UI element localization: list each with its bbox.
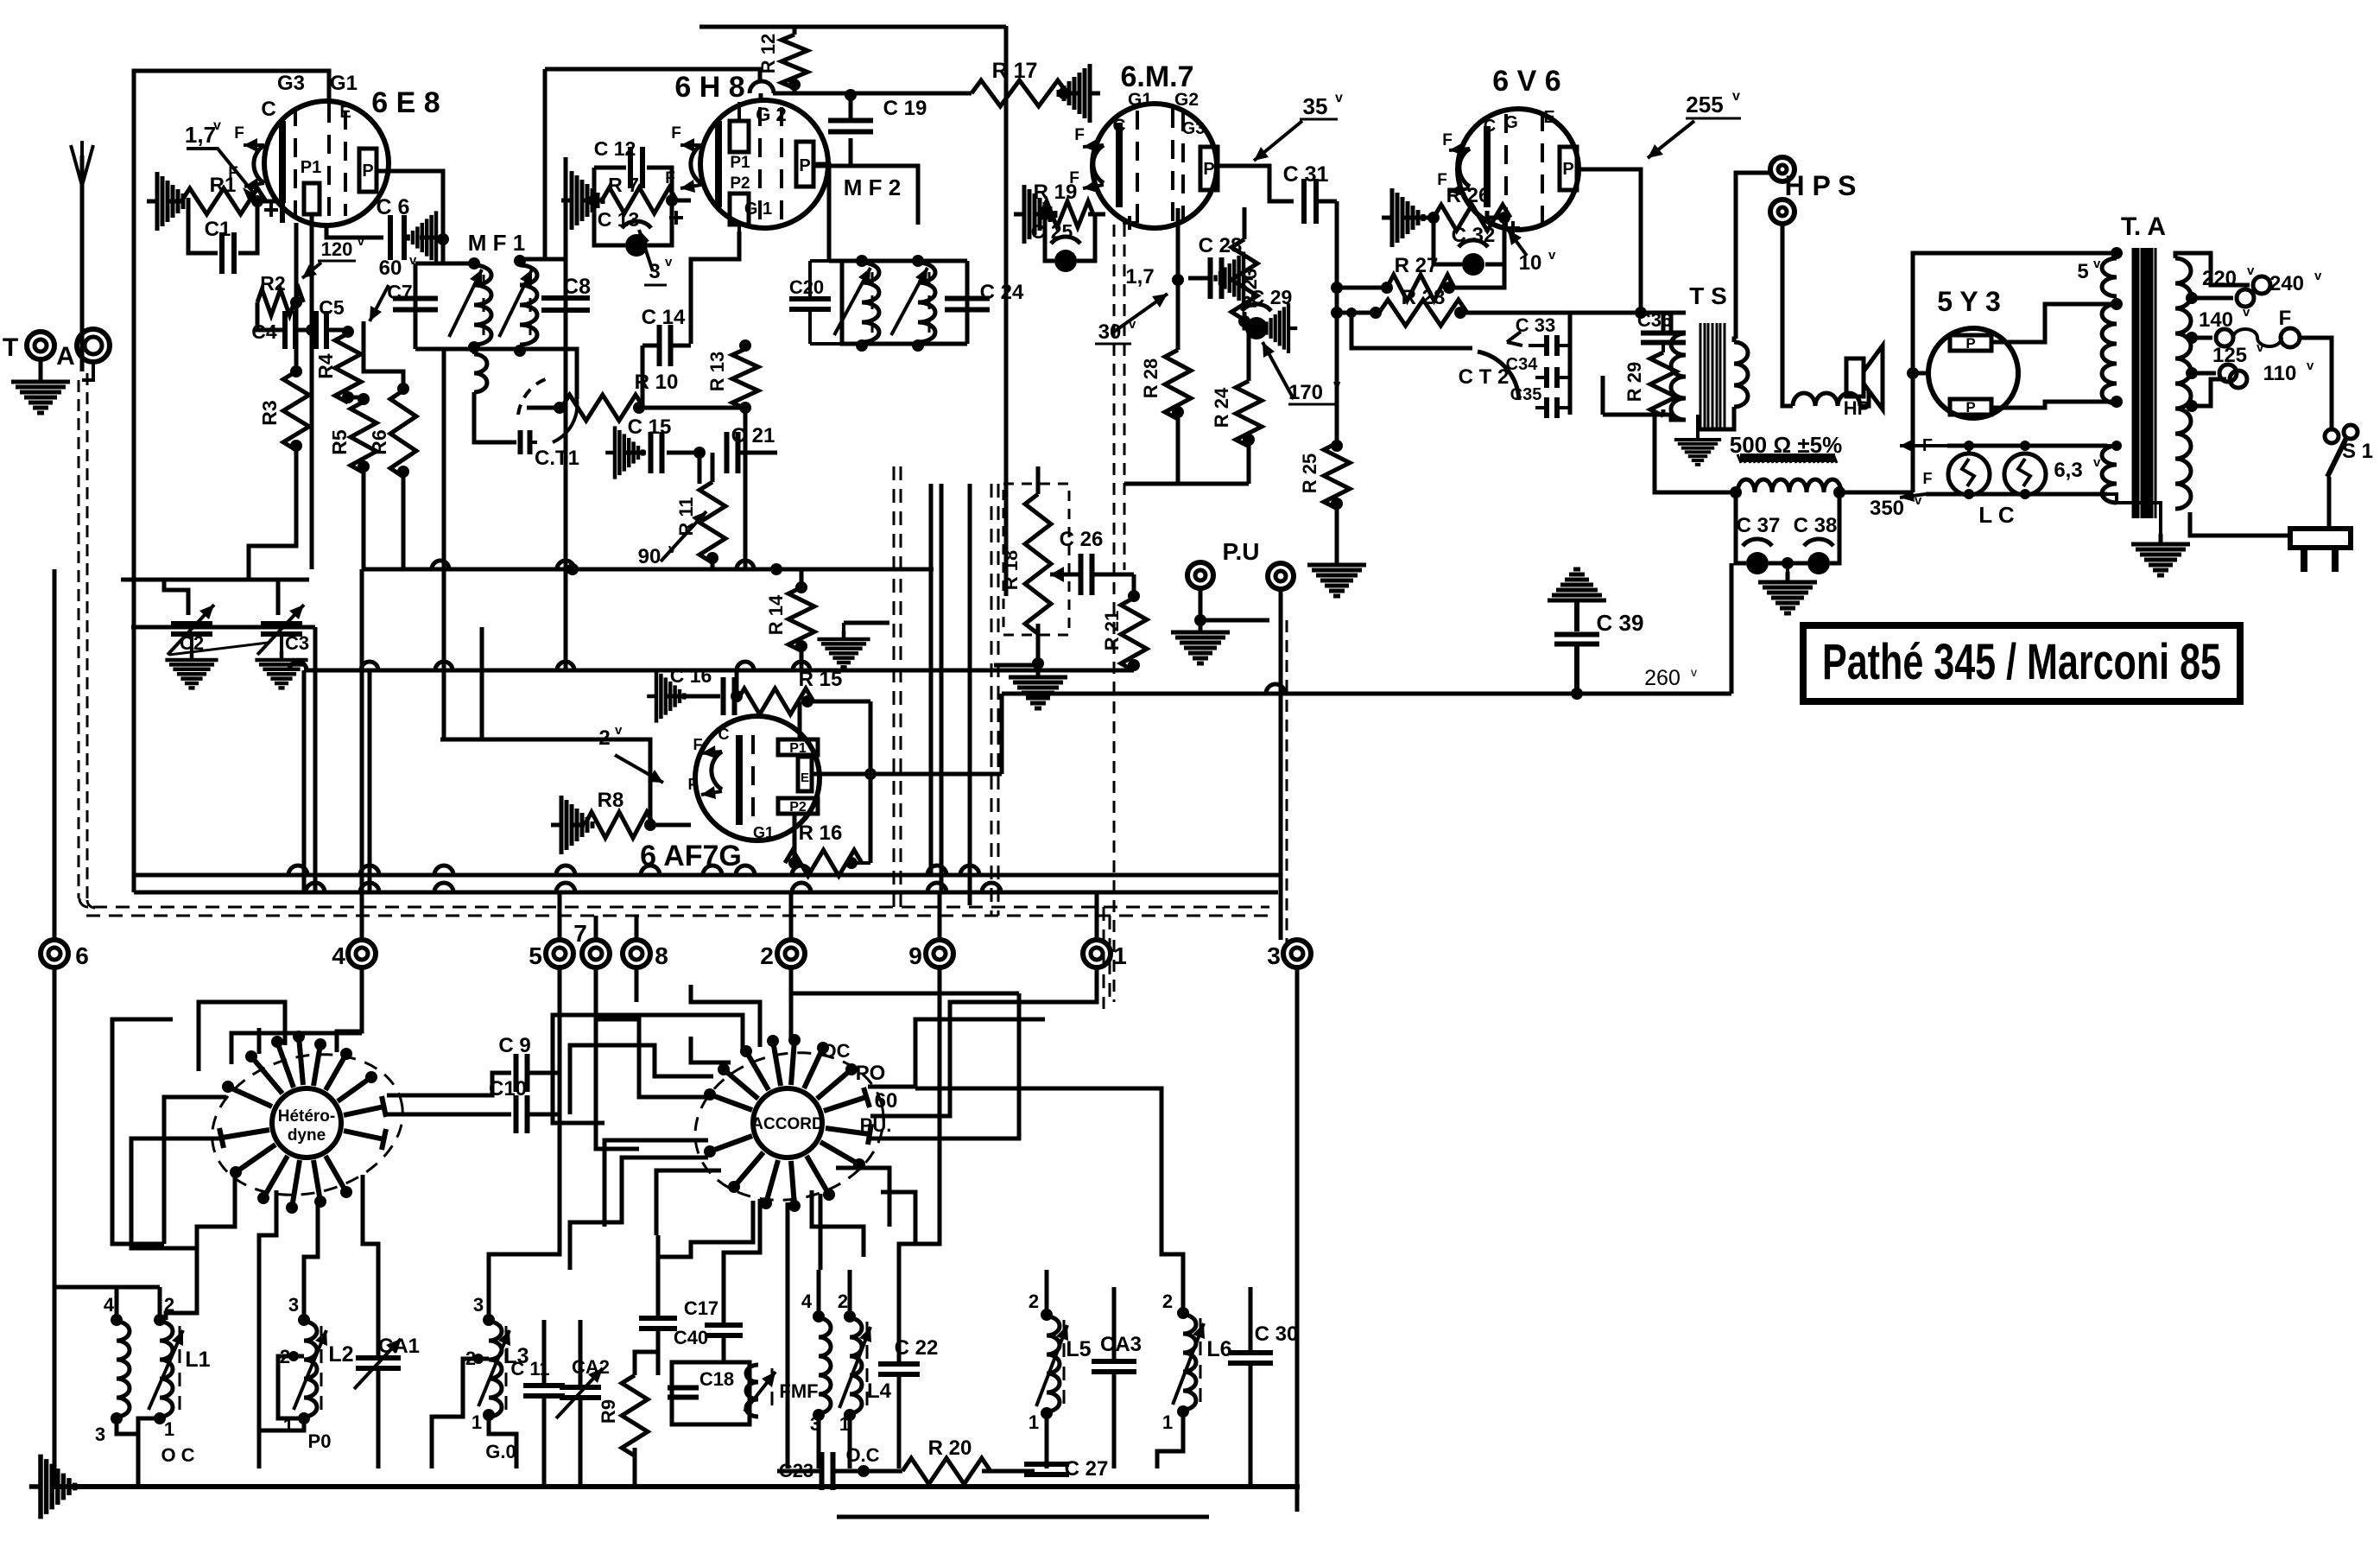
terminal 5 (546, 940, 573, 967)
L1 wires (117, 1417, 160, 1434)
coil L5 (1047, 1316, 1060, 1411)
junction (1331, 307, 1343, 319)
capacitor C25 electrolytic (1054, 250, 1077, 272)
wire 255V node (1570, 311, 1686, 315)
junction (251, 195, 263, 207)
rotary switch Heterodyne (272, 1088, 341, 1158)
wire plug left (2198, 534, 2290, 538)
HPS wires (1736, 173, 1770, 339)
svg-text:5: 5 (529, 942, 542, 969)
capacitor C19 (849, 93, 853, 119)
svg-text:R 19: R 19 (1034, 181, 1078, 204)
capacitor C36 (1641, 333, 1686, 343)
title box Pathe 345 / Marconi 85 (1803, 625, 2240, 701)
TA 5V winding (2102, 258, 2117, 296)
wire (1249, 1287, 1253, 1351)
junction (358, 460, 370, 473)
wire 6H8 box top (545, 69, 760, 82)
svg-text:255: 255 (1686, 92, 1723, 117)
wire (1243, 207, 1247, 239)
svg-text:C 24: C 24 (980, 281, 1024, 304)
wire (777, 1469, 822, 1474)
svg-text:CA1: CA1 (378, 1335, 420, 1358)
wire (326, 330, 348, 333)
wire y856 link (480, 627, 484, 739)
svg-text:C: C (718, 726, 730, 743)
wire (639, 406, 745, 410)
wire (813, 138, 851, 166)
svg-text:R4: R4 (314, 353, 337, 379)
svg-text:2: 2 (838, 1291, 848, 1312)
svg-text:R9: R9 (598, 1399, 619, 1424)
wire (489, 1114, 560, 1270)
variable capacitor CA3 (1092, 1361, 1136, 1372)
wire het right to C9 C10 (387, 1073, 511, 1095)
capacitor C31 (1304, 179, 1316, 224)
svg-text:G2: G2 (1174, 90, 1199, 110)
svg-text:C40: C40 (674, 1327, 708, 1348)
svg-text:v: v (2314, 269, 2322, 283)
svg-text:v: v (615, 723, 623, 738)
svg-text:35: 35 (1303, 93, 1328, 119)
260V feed line (1002, 692, 1731, 696)
svg-text:125: 125 (2212, 344, 2247, 367)
svg-text:C 6: C 6 (377, 195, 410, 219)
wire (376, 371, 403, 389)
wire x428 drop (368, 670, 372, 892)
wire 6V6 plate (1577, 169, 1641, 313)
svg-text:R 13: R 13 (706, 352, 728, 391)
svg-text:P: P (1965, 399, 1975, 415)
resistor R11 (699, 482, 725, 562)
svg-text:FMF: FMF (779, 1380, 818, 1402)
wire (302, 1287, 307, 1320)
vertical dashed pair (893, 466, 896, 907)
resistor R3 (283, 371, 309, 450)
svg-text:C35: C35 (1510, 385, 1542, 404)
antenna terminal T (27, 332, 54, 359)
tap circles (2237, 289, 2254, 307)
svg-text:120: 120 (321, 238, 353, 260)
wire (800, 569, 804, 587)
svg-text:350: 350 (1870, 497, 1904, 520)
shield ground (844, 621, 889, 625)
wire rail (699, 25, 1006, 29)
svg-text:T S: T S (1689, 282, 1727, 309)
5Y3 plate 2 (1950, 399, 1991, 415)
wire (1058, 92, 1081, 96)
filament arrow (1083, 145, 1104, 147)
wire (1913, 371, 1928, 376)
wire (1926, 492, 2107, 497)
svg-text:C 37: C 37 (1737, 514, 1781, 537)
C18 box (672, 1362, 750, 1424)
wire (1249, 1365, 1253, 1487)
pointer (639, 230, 653, 271)
wire (39, 359, 43, 380)
ground (561, 171, 603, 230)
capacitor C8 (564, 157, 568, 670)
dashed corner to accord (1109, 916, 1111, 1002)
svg-text:C 16: C 16 (670, 664, 712, 687)
wire (1176, 278, 1181, 350)
svg-text:P1: P1 (730, 154, 750, 172)
wire (1092, 573, 1134, 577)
wire 6H8 plate right (851, 166, 918, 225)
HP voice coil (1793, 393, 1860, 406)
wire to R27 bus (1337, 286, 1390, 290)
svg-text:60: 60 (875, 1089, 898, 1113)
plate P 6E8 (359, 149, 377, 192)
capacitor C1 (222, 232, 234, 274)
svg-text:C 25: C 25 (1031, 220, 1073, 243)
svg-text:v: v (1335, 91, 1343, 105)
svg-text:O C: O C (161, 1444, 194, 1466)
wire terminal8 drop (635, 967, 639, 1002)
wire (1244, 312, 1245, 328)
svg-text:R8: R8 (598, 789, 624, 812)
plate P1 6E8 (304, 183, 320, 214)
wire (257, 302, 285, 330)
svg-text:G3: G3 (1182, 119, 1206, 138)
junction (342, 391, 354, 403)
resistor R9 (622, 1375, 648, 1456)
wire (527, 406, 561, 410)
HPS terminals (1770, 157, 1794, 181)
svg-text:HP: HP (1844, 397, 1870, 419)
svg-text:F: F (693, 736, 703, 753)
wire S1 to plug (2327, 477, 2332, 529)
resistor R2 (257, 289, 303, 315)
svg-text:M F 1: M F 1 (468, 230, 525, 256)
padder CT1 (474, 354, 487, 392)
wire (402, 472, 406, 569)
wire (1088, 212, 1105, 217)
filament arrow (680, 143, 701, 147)
wire (670, 344, 691, 348)
grid G1 dashed 6AF7G (751, 735, 755, 827)
svg-text:P.U: P.U (1222, 538, 1259, 565)
capacitor C32 electrolytic (1462, 253, 1484, 276)
MF2 box wires (842, 259, 950, 263)
svg-text:8: 8 (655, 942, 668, 969)
capacitor C28 (1211, 257, 1222, 299)
capacitor C20 (842, 261, 862, 344)
wire (744, 403, 748, 569)
wire to C2 C3 (121, 578, 309, 582)
svg-text:R 28: R 28 (1402, 286, 1446, 309)
wire MF1 drop (442, 351, 446, 739)
wire (1247, 440, 1251, 484)
svg-text:C4: C4 (251, 320, 277, 343)
wire x365 drop (313, 627, 318, 892)
wire (1860, 390, 1869, 406)
ground (1307, 555, 1366, 596)
coil L1b (160, 1322, 173, 1417)
TA right bottom wire (2190, 512, 2198, 536)
ground (1059, 64, 1100, 123)
tube 5Y3 (1928, 328, 2018, 418)
capacitor C18 (668, 1388, 699, 1398)
wire (635, 1352, 658, 1375)
junction (731, 690, 743, 702)
capacitor C6 (390, 215, 404, 260)
capacitor C17 (705, 1325, 743, 1335)
Accord top wires (691, 985, 760, 1047)
svg-text:C 12: C 12 (594, 137, 636, 160)
grid dashed lines 6M7 (1136, 111, 1139, 226)
svg-text:C20: C20 (789, 276, 824, 298)
wire (542, 1398, 547, 1487)
ground (1758, 572, 1817, 613)
wire to tone switch (1351, 313, 1472, 348)
TA HT winding (2102, 304, 2117, 403)
resistor R10 (561, 395, 644, 421)
capacitor C9 (516, 1054, 528, 1092)
svg-text:10: 10 (1519, 251, 1542, 275)
svg-text:R1: R1 (210, 174, 237, 197)
wire (722, 1270, 726, 1323)
wire P2 (793, 814, 797, 863)
wire (1316, 200, 1337, 204)
junction (770, 563, 782, 575)
terminal 7 (582, 940, 610, 967)
ground (1382, 188, 1423, 247)
wire (1337, 311, 1379, 315)
wire (1132, 663, 1136, 670)
grid G1 dashed (780, 107, 783, 226)
svg-text:C 13: C 13 (598, 208, 640, 231)
wire (806, 700, 870, 704)
target P2 6AF7G (778, 798, 818, 814)
wire (722, 1337, 726, 1362)
resistor R7 (602, 187, 677, 213)
resistor R21 (1121, 598, 1147, 670)
pointer (370, 285, 389, 321)
svg-text:v: v (2093, 257, 2101, 271)
wire (656, 1235, 661, 1316)
target P1 6AF7G (778, 739, 818, 755)
terminal PU left (1187, 562, 1213, 588)
svg-text:L6: L6 (1206, 1337, 1231, 1361)
wire (302, 670, 307, 892)
variable capacitor CA2 (560, 1387, 601, 1398)
bottom rail (1603, 413, 1671, 417)
junction (397, 383, 409, 395)
svg-text:C 9: C 9 (498, 1034, 530, 1057)
wire (579, 1399, 583, 1487)
capacitor C15 (651, 432, 662, 473)
wire (737, 225, 741, 232)
wire (793, 27, 797, 35)
svg-text:P0: P0 (308, 1430, 332, 1452)
svg-text:R5: R5 (328, 429, 351, 455)
5Y3 plate 1 (1950, 335, 1991, 351)
svg-text:C 32: C 32 (1452, 224, 1496, 247)
plate P 6V6 (1560, 147, 1577, 190)
ground (1009, 667, 1067, 708)
svg-text:C7: C7 (387, 281, 412, 303)
solid bus 1 (134, 873, 1281, 878)
wire E to bus (870, 772, 1002, 777)
pointer (1648, 121, 1694, 158)
junction (666, 194, 678, 206)
svg-text:C 15: C 15 (628, 415, 672, 439)
wire (164, 580, 188, 615)
TS core hatch (1700, 323, 1725, 429)
bus humps (288, 866, 307, 875)
wire plate to MF1 (377, 171, 443, 263)
wire (737, 451, 777, 455)
resistor R15 (737, 688, 813, 714)
svg-text:CA2: CA2 (572, 1356, 610, 1378)
svg-text:P: P (1203, 160, 1214, 179)
svg-text:C5: C5 (319, 296, 345, 319)
ground (1216, 251, 1253, 304)
wire (487, 1287, 491, 1320)
svg-text:4: 4 (801, 1291, 813, 1312)
wire P1 (798, 701, 802, 739)
svg-text:E: E (1543, 108, 1554, 127)
filament arrow (1449, 149, 1470, 150)
wire (1045, 214, 1054, 261)
junction (1635, 307, 1647, 319)
svg-text:3: 3 (1267, 942, 1281, 969)
svg-text:R 26: R 26 (1446, 184, 1491, 207)
wire (899, 1002, 940, 1270)
wire (579, 1320, 583, 1386)
TA ground (2159, 518, 2162, 542)
ground (165, 650, 218, 688)
svg-text:v: v (213, 118, 221, 133)
wire (1947, 444, 2107, 448)
wire bus A (362, 568, 934, 572)
wire (1244, 328, 1249, 381)
svg-text:R 16: R 16 (799, 821, 843, 845)
pointer (1114, 294, 1168, 332)
grid G1 dashed (327, 104, 331, 223)
MF1 primary coil (474, 265, 491, 345)
ground (1171, 622, 1230, 663)
coil L1a (117, 1322, 130, 1417)
wire (1730, 563, 1734, 694)
svg-text:R 21: R 21 (1101, 611, 1123, 650)
+ mark (669, 211, 683, 225)
wire (1662, 409, 1666, 415)
resistor R25 (1324, 443, 1350, 509)
junction (437, 233, 449, 245)
svg-text:O.C: O.C (845, 1444, 879, 1466)
wire (542, 1320, 547, 1384)
resistor R1 (181, 188, 266, 214)
filament 6V6 (1459, 149, 1470, 187)
capacitor C27 (1024, 1464, 1069, 1475)
wire y726 (131, 625, 315, 630)
junction (290, 365, 302, 377)
svg-text:5: 5 (2077, 260, 2088, 283)
vertical bus pair (929, 484, 934, 875)
wire (414, 263, 418, 294)
cathode 6H8 (715, 121, 722, 207)
svg-text:3: 3 (473, 1294, 484, 1316)
wire 350V to 5Y3 (1913, 253, 2117, 492)
MF2 core dashed + arrows (871, 272, 874, 335)
svg-text:P: P (1562, 160, 1573, 179)
wire (982, 1469, 1035, 1474)
svg-text:P: P (799, 156, 810, 175)
wire het to terminal 4 (337, 967, 362, 1052)
TA primary taps (2175, 253, 2250, 285)
resistor R28 (1379, 300, 1467, 326)
wire (168, 200, 181, 204)
svg-text:R 27: R 27 (1395, 254, 1439, 277)
pointer (661, 511, 706, 561)
coil L6 (1183, 1315, 1196, 1410)
svg-text:F: F (688, 776, 698, 793)
terminal PU right (1268, 563, 1294, 589)
wire E out (812, 772, 870, 777)
L1 core dashed arrow (179, 1326, 181, 1417)
wire (257, 200, 282, 204)
wire (759, 93, 763, 102)
svg-text:90: 90 (638, 545, 661, 568)
L4 coils (819, 1318, 831, 1413)
wire (711, 555, 715, 569)
wire (1698, 407, 1734, 429)
wire (2107, 494, 2117, 503)
wire (249, 442, 296, 580)
junction (290, 440, 302, 452)
rotary switch Accord (753, 1088, 822, 1158)
svg-text:H P S: H P S (1785, 170, 1857, 201)
capacitor C4 (285, 311, 295, 349)
coil L3 (489, 1322, 502, 1417)
wire (1662, 343, 1665, 352)
wire (1782, 390, 1793, 406)
wire PU right drop (1279, 589, 1283, 940)
wire (667, 451, 699, 455)
svg-text:v: v (1691, 665, 1697, 679)
plate P1 6H8 (730, 121, 749, 152)
filament 6E8 (254, 145, 264, 183)
wire fuse to switch (2300, 338, 2332, 429)
terminal 8 (623, 940, 650, 967)
Heterodyne dashed ellipse (197, 1035, 418, 1214)
wire (1485, 218, 1504, 264)
resistor R20 (902, 1458, 991, 1484)
Heterodyne spokes (228, 1087, 272, 1107)
wire (1402, 216, 1434, 220)
svg-text:4: 4 (332, 942, 345, 969)
junction (342, 326, 354, 338)
capacitor C11 (523, 1386, 565, 1396)
svg-text:T. A: T. A (2121, 212, 2166, 241)
svg-text:R 12: R 12 (757, 34, 779, 73)
wire (82, 362, 93, 380)
svg-text:R 20: R 20 (928, 1437, 972, 1460)
wire (897, 1376, 902, 1468)
svg-text:R 29: R 29 (1624, 362, 1645, 402)
svg-text:1,7: 1,7 (1125, 265, 1154, 289)
wire (915, 1088, 1183, 1313)
wire (1176, 208, 1181, 278)
lamp LC 2 (2004, 454, 2046, 495)
cathode 6E8 (279, 121, 286, 203)
TA primary winding (2175, 258, 2191, 509)
wire (994, 663, 1038, 668)
svg-text:C8: C8 (563, 275, 591, 299)
cathode 6V6 (1484, 126, 1491, 207)
